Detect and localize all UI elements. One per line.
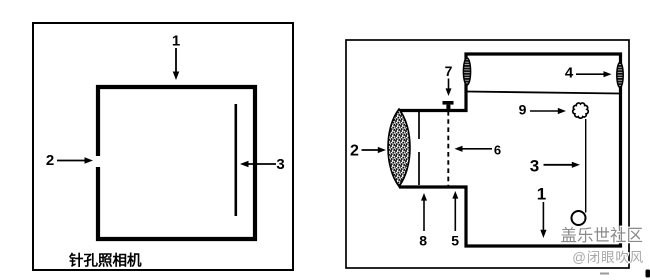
svg-text:4: 4 <box>565 65 574 82</box>
viewfinder eyepiece (small dark ellipse right) <box>617 63 623 88</box>
viewfinder front lens (small dark ellipse left) <box>463 58 470 85</box>
svg-text:盖乐世社区: 盖乐世社区 <box>561 226 644 245</box>
svg-text:7: 7 <box>445 63 453 79</box>
svg-text:6: 6 <box>494 143 501 158</box>
svg-text:9: 9 <box>519 102 527 118</box>
arrow 3 (right toward film wire) <box>544 162 581 168</box>
camera body outline (stepped) <box>399 54 621 246</box>
arrow 7 (down to shutter button) <box>446 79 452 97</box>
battery / film spool circle <box>572 211 586 225</box>
arrow 1 (down to body bottom) <box>540 202 546 238</box>
flash lamp (scalloped circle) <box>573 103 589 118</box>
svg-text:5: 5 <box>451 233 459 249</box>
black mark at image bottom-right corner <box>646 270 650 278</box>
svg-text:3: 3 <box>276 156 284 173</box>
arrow 4 (right to eyepiece) <box>576 71 612 77</box>
svg-text:1: 1 <box>172 33 180 50</box>
svg-text:8: 8 <box>419 233 427 249</box>
arrow 2 (right toward objective lens) <box>362 147 387 153</box>
svg-text:@闭眼吹风: @闭眼吹风 <box>572 250 644 265</box>
svg-text:2: 2 <box>46 152 54 169</box>
right panel outer frame <box>346 40 629 268</box>
pinhole camera box (left wall with pinhole gap) <box>98 87 255 239</box>
film line inside pinhole camera <box>235 104 238 216</box>
shutter release button <box>443 101 454 110</box>
objective lens (stippled) <box>388 109 410 187</box>
viewfinder tunnel bottom line <box>467 92 620 94</box>
left panel outer frame <box>33 23 293 270</box>
svg-text:2: 2 <box>350 143 359 160</box>
arrow 1 (left panel, downward to box top) <box>173 48 180 80</box>
arrow 6 (left toward shutter plane) <box>455 146 493 152</box>
svg-text:3: 3 <box>530 157 539 176</box>
aperture diaphragm line (with central gap) <box>418 112 420 185</box>
arrow 2 (left panel, rightward to pinhole) <box>57 157 93 164</box>
wire from flash to battery <box>585 119 587 213</box>
svg-text:1: 1 <box>537 185 546 204</box>
arrow 9 (right to flash) <box>530 108 566 114</box>
arrow 8 (up to barrel bottom) <box>421 193 427 231</box>
arrow 5 (up to shutter plane) <box>452 191 458 231</box>
shutter plane dashed line <box>447 111 449 186</box>
svg-text:针孔照相机: 针孔照相机 <box>69 252 142 270</box>
small gray dash under watermark <box>600 273 609 275</box>
arrow 3 (left panel, leftward to film) <box>240 161 276 168</box>
